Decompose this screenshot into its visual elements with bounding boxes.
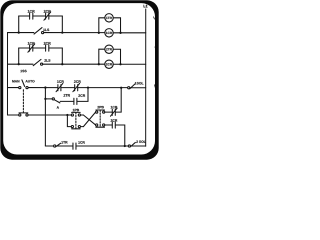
pushbutton 2PB operator dashed	[99, 110, 101, 127]
wire 1PB NO branch vertical	[67, 115, 71, 127]
pushbutton 2PB NC deck bar	[96, 109, 105, 111]
contact 1CR (NO) rung1 branch	[30, 13, 33, 19]
label 2SOL	[136, 141, 145, 143]
wire rung1 branch right vertical	[61, 16, 63, 33]
rung 2 wire left	[8, 63, 33, 65]
tiny rail mark 1	[153, 17, 156, 19]
label 2CR	[78, 94, 85, 96]
label 1CR	[28, 10, 35, 13]
node rung2 branch left	[18, 63, 20, 65]
rung 3 wire left	[7, 87, 18, 89]
pushbutton 2PB NO deck bar	[96, 126, 105, 128]
switch A blade	[54, 100, 60, 103]
wire 1PB NC to cross	[80, 114, 83, 116]
solenoid 1SOL terminal	[128, 87, 130, 89]
limit switch 2LS terminal	[41, 63, 43, 65]
contact 2CR (NC) rung3	[73, 83, 80, 91]
wire 2PB NC to 1CR	[105, 111, 112, 113]
rung 3 wire to 1SOL	[78, 87, 128, 89]
limit switch 2LS blade	[33, 59, 41, 65]
node 1PB branch	[66, 114, 68, 116]
label L2 top right	[144, 5, 148, 7]
wire 1PB NO to cross	[80, 126, 83, 128]
node rung3 manual branch	[120, 87, 122, 89]
wire rung3b left	[45, 98, 52, 100]
solenoid 2SOL terminal	[128, 145, 130, 147]
switch A terminal	[52, 98, 54, 100]
wire 1TR branch	[99, 18, 121, 33]
rung 3 wire between contacts	[61, 87, 75, 89]
rung 4 wire left	[7, 114, 18, 116]
wire rung2 branch top	[19, 47, 63, 49]
right rail L2	[145, 9, 147, 146]
timed switch 1TR blade	[56, 143, 61, 147]
contact 2CR (NC) rung1 branch	[44, 12, 51, 20]
wire rung2 to rail	[113, 63, 145, 65]
wire rung2 branch right vertical	[61, 48, 63, 64]
tiny rail mark 2	[154, 47, 157, 49]
label AUTO	[25, 80, 34, 82]
label 1CR	[78, 141, 85, 143]
wire 2SOL to rail	[131, 145, 146, 147]
contact 1CR (NC) rung3	[56, 83, 63, 91]
tiny rail mark 3	[154, 85, 157, 88]
limit switch 1LS terminal	[42, 31, 44, 33]
contact 2CR (NO) manual down	[112, 122, 115, 128]
selector 1SS deck2 bar	[19, 112, 28, 114]
node rung3 timer branch	[87, 86, 89, 88]
wire rung3b right and up	[77, 88, 88, 102]
coil 1TR	[105, 14, 113, 22]
wire cross down	[83, 115, 95, 125]
wire 1CR to vertical up	[115, 88, 121, 112]
wire 2PB NO to 2CR	[105, 124, 112, 126]
selector 1SS deck2 terminal right	[26, 114, 28, 116]
left rail L1	[6, 33, 8, 115]
label MAN	[12, 80, 19, 82]
label 2PB	[97, 106, 103, 108]
label 2CR	[74, 80, 81, 82]
label 1CR	[28, 42, 35, 45]
bottom rung wire middle	[56, 145, 73, 147]
pushbutton 1PB operator dashed	[75, 112, 77, 128]
pushbutton 1PB NC deck bar	[72, 111, 81, 113]
pushbutton 1PB NO deck terminals	[71, 125, 73, 127]
contact 1CR (NO) bottom	[73, 143, 76, 149]
node rung2 branch right	[61, 63, 63, 65]
label 2CR	[111, 119, 118, 121]
label 1PB	[73, 109, 79, 111]
label A	[57, 106, 59, 108]
bottom rung wire left	[45, 145, 53, 147]
label 1LS	[43, 29, 49, 31]
wire auto vertical	[44, 88, 46, 146]
label 1SOL	[135, 82, 144, 84]
solenoid 2SOL blade	[130, 142, 135, 146]
node rung1 branch right	[61, 31, 63, 33]
node rung2 coil branch left	[98, 63, 100, 65]
wire rung1 to rail	[113, 32, 145, 34]
selector 1SS linkage dashed	[22, 90, 24, 112]
node rung1 coil branch left	[98, 32, 100, 34]
wire 1SOL to rail	[130, 87, 146, 89]
contact 1CR (NC) manual up	[110, 108, 117, 116]
border frame	[0, 0, 158, 159]
node auto branch 3b	[44, 98, 46, 100]
selector 1SS deck1 terminal left	[19, 86, 21, 88]
wire rung2 branch left vertical	[18, 48, 20, 64]
solenoid 1SOL blade	[130, 84, 135, 89]
rung 3 wire to 1CR	[28, 87, 58, 89]
contact 2TR (NO) rung3b	[74, 98, 77, 104]
wire rung2 middle	[43, 63, 105, 65]
label 1SS	[20, 70, 26, 72]
timed switch 1TR terminal	[54, 145, 56, 147]
node rung3 auto branch	[44, 86, 46, 88]
node rung1 branch left	[18, 31, 20, 33]
coil 1CR	[105, 29, 113, 37]
coil 2CR	[105, 60, 113, 68]
pushbutton 1PB NC deck terminals	[71, 114, 73, 116]
wire rung3b middle	[60, 100, 74, 102]
wire 2TR branch	[99, 49, 121, 64]
pushbutton 2PB NO deck terminals	[96, 124, 98, 126]
wire rung1 branch left vertical	[18, 16, 20, 33]
selector 1SS deck1 terminal right	[26, 86, 28, 88]
pushbutton 2PB NC deck terminals	[96, 111, 98, 113]
wire cross up	[83, 112, 95, 127]
rung 1 wire left	[8, 32, 34, 34]
coil 2TR	[105, 45, 113, 53]
label 1TR	[61, 141, 67, 143]
wire 2CR to vertical down	[115, 125, 124, 146]
contact 1CR (NC) rung2 branch	[28, 44, 35, 52]
label 1CR	[111, 106, 118, 108]
label 2CR	[44, 42, 51, 45]
pushbutton 1PB NO deck bar	[72, 128, 81, 130]
rung 4 wire to 1PB	[28, 114, 71, 116]
node rung2 coil branch right	[119, 63, 121, 65]
selector 1SS deck2 terminal left	[19, 114, 21, 116]
limit switch 1LS blade	[34, 28, 42, 35]
contact 2CR (NO) rung2 branch	[46, 45, 49, 51]
node 2SOL branch	[124, 145, 126, 147]
label 1CR	[57, 80, 64, 82]
wire rung1 middle	[44, 32, 105, 34]
selector 1SS deck1 blade	[22, 80, 25, 87]
node rung1 coil branch right	[119, 32, 121, 34]
bottom rung wire right	[76, 145, 128, 147]
label 2CR	[44, 10, 51, 13]
label 2LS	[44, 59, 50, 61]
wire rung1 branch top	[19, 15, 63, 17]
label 2TR	[64, 94, 70, 96]
